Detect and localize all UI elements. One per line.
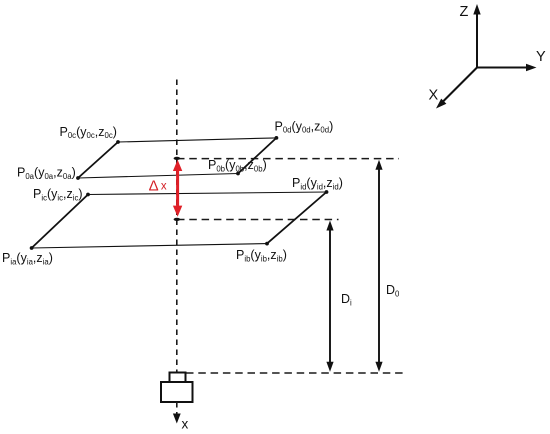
plane 0 right edge P0d-P0b bbox=[238, 138, 276, 174]
svg-text:X: X bbox=[429, 88, 439, 104]
axis Z (up) bbox=[476, 13, 478, 68]
camera body top (lens barrel) bbox=[170, 373, 186, 383]
svg-text:Z: Z bbox=[460, 4, 469, 20]
plane 0 bottom edge P0a-P0b bbox=[78, 174, 238, 179]
dimension arrow D0 (double headed) bbox=[375, 160, 382, 372]
node P0b bbox=[236, 172, 240, 176]
node P0c bbox=[116, 140, 120, 144]
svg-text:Δ: Δ bbox=[149, 177, 159, 194]
plane 0 (object plane) top edge P0c-P0d bbox=[118, 138, 276, 142]
camera body main bbox=[161, 382, 193, 402]
node P0d bbox=[275, 136, 279, 140]
dimension arrow Di (double headed) bbox=[326, 221, 333, 372]
axis X (down-left) bbox=[443, 68, 477, 102]
wire: dashed horizontal line at image-plane level (y~219.5) bbox=[177, 219, 339, 221]
plane i right edge Pid-Pib bbox=[267, 192, 327, 244]
node Pib bbox=[265, 242, 269, 246]
node Pic bbox=[86, 193, 90, 197]
plane i (image plane) top edge Pic-Pid bbox=[88, 192, 327, 195]
node P0a bbox=[76, 176, 80, 180]
node Pid bbox=[325, 190, 329, 194]
node: tick on axis at image plane level bbox=[174, 218, 181, 221]
coordinate axes origin bbox=[436, 4, 537, 109]
arrow x (camera axis downward) bbox=[173, 414, 181, 424]
plane i left edge Pic-Pia bbox=[32, 195, 88, 249]
svg-text:Y: Y bbox=[536, 49, 546, 65]
wire: dashed stub below camera bbox=[176, 402, 178, 414]
wire: dashed horizontal line at camera level (y~373) bbox=[186, 372, 407, 374]
plane i bottom edge Pia-Pib bbox=[32, 244, 267, 248]
axis Y (right) bbox=[477, 67, 527, 69]
red displacement arrow (double headed) bbox=[173, 160, 182, 217]
svg-text:x: x bbox=[182, 417, 189, 432]
wire: center optical axis dashed vertical line bbox=[176, 80, 178, 373]
node Pia bbox=[30, 246, 34, 250]
node: tick on axis at object plane level bbox=[174, 157, 181, 160]
svg-text:x: x bbox=[161, 181, 167, 193]
wire: dashed horizontal line at object-plane level (y~158.6) bbox=[177, 158, 399, 160]
plane 0 left edge P0c-P0a bbox=[78, 142, 118, 178]
